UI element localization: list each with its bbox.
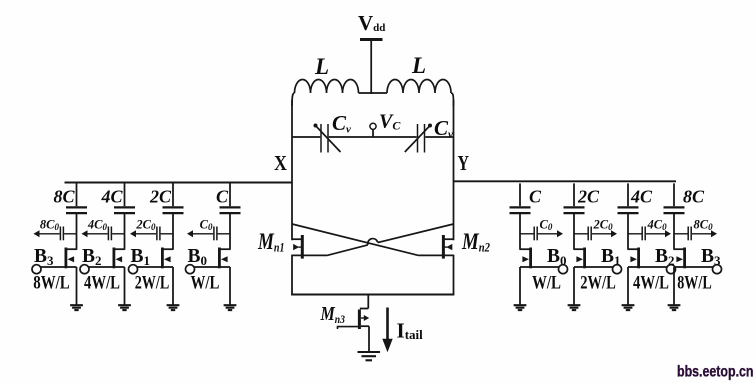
- svg-text:C0: C0: [540, 218, 553, 233]
- svg-text:C0: C0: [200, 218, 213, 233]
- svg-text:2C: 2C: [577, 187, 600, 207]
- svg-text:8W/L: 8W/L: [677, 273, 712, 294]
- svg-text:8C: 8C: [683, 187, 705, 207]
- svg-text:C: C: [529, 187, 542, 207]
- svg-text:2W/L: 2W/L: [580, 273, 616, 294]
- svg-text:4C: 4C: [630, 187, 653, 207]
- svg-text:B2: B2: [82, 246, 102, 268]
- svg-text:B3: B3: [701, 246, 721, 268]
- svg-text:8W/L: 8W/L: [33, 273, 70, 294]
- svg-text:L: L: [314, 54, 329, 79]
- svg-text:4C0: 4C0: [87, 218, 108, 233]
- svg-text:Vdd: Vdd: [358, 11, 385, 35]
- svg-text:bbs.eetop.cn: bbs.eetop.cn: [677, 364, 754, 381]
- svg-text:2W/L: 2W/L: [135, 273, 170, 294]
- svg-text:W/L: W/L: [532, 273, 561, 294]
- svg-text:C: C: [216, 187, 229, 207]
- svg-text:Mn3: Mn3: [320, 303, 345, 326]
- svg-text:4W/L: 4W/L: [84, 273, 120, 294]
- svg-text:Y: Y: [458, 151, 470, 175]
- svg-text:X: X: [274, 151, 287, 175]
- svg-text:8C0: 8C0: [40, 218, 60, 233]
- svg-text:2C: 2C: [149, 187, 172, 207]
- svg-text:B1: B1: [601, 246, 621, 268]
- svg-text:4C: 4C: [100, 187, 123, 207]
- svg-text:W/L: W/L: [191, 273, 220, 294]
- svg-text:2C0: 2C0: [593, 218, 614, 233]
- svg-text:4W/L: 4W/L: [633, 273, 669, 294]
- svg-text:Cv: Cv: [434, 116, 453, 141]
- svg-text:B3: B3: [34, 246, 54, 268]
- svg-text:Mn1: Mn1: [257, 229, 284, 255]
- svg-text:B0: B0: [547, 246, 567, 268]
- svg-text:Cv: Cv: [332, 111, 351, 136]
- svg-text:2C0: 2C0: [135, 218, 156, 233]
- svg-text:8C: 8C: [53, 187, 75, 207]
- svg-text:4C0: 4C0: [647, 218, 668, 233]
- svg-text:L: L: [411, 53, 426, 78]
- svg-text:B1: B1: [131, 246, 151, 268]
- svg-text:Mn2: Mn2: [461, 229, 490, 255]
- svg-text:B0: B0: [188, 246, 208, 268]
- svg-text:VC: VC: [379, 111, 401, 133]
- svg-text:8C0: 8C0: [694, 218, 714, 233]
- svg-text:B2: B2: [655, 246, 675, 268]
- svg-text:Itail: Itail: [397, 319, 424, 343]
